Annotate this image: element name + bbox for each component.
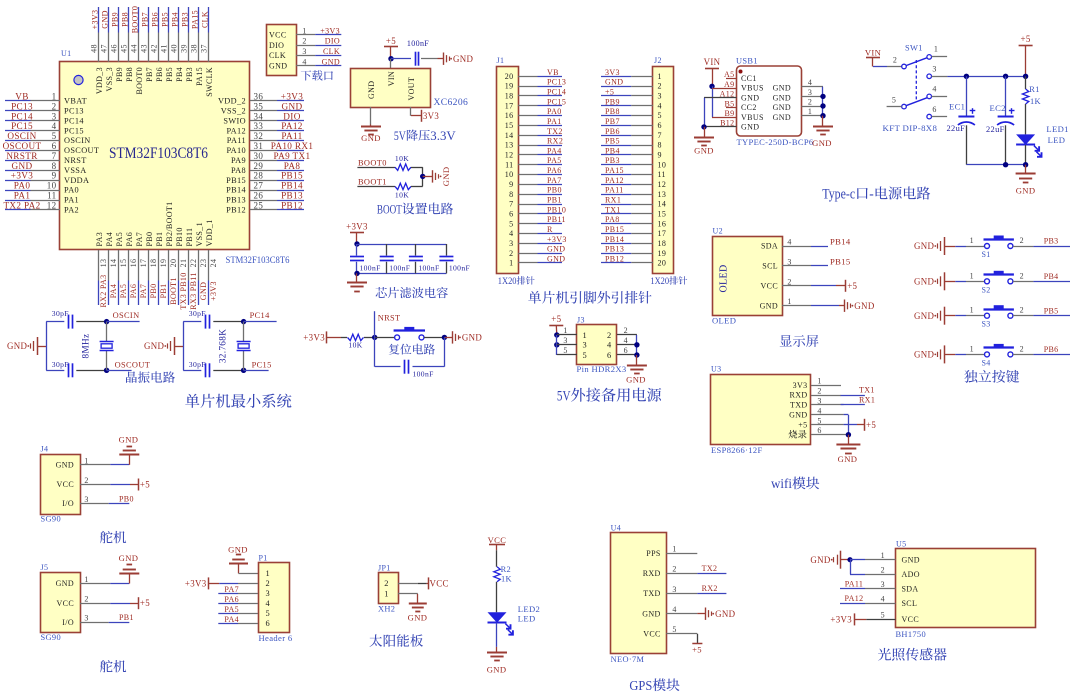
capacitor 100nF filter 2 [380,244,411,273]
U1 bottom pin 24 VDD_1 / net +3V3 [205,219,218,305]
svg-text:PB1: PB1 [547,196,562,205]
svg-text:+3V3: +3V3 [346,221,368,231]
svg-text:19: 19 [505,82,514,91]
junction [388,56,393,61]
svg-text:8MHz: 8MHz [81,334,91,359]
svg-text:3V3: 3V3 [605,68,620,77]
J5 pin1 GND wire [80,574,130,584]
svg-text:40: 40 [170,44,179,53]
USB1 pin B9 [712,109,737,118]
svg-text:5: 5 [881,611,885,620]
svg-text:1: 1 [509,259,513,268]
U1 bottom pin 22 PB11 / net RX3 PB11 [185,228,198,310]
svg-text:RX2: RX2 [547,137,563,146]
svg-text:NRST: NRST [64,156,87,165]
svg-text:GND: GND [773,93,791,102]
J4 pin1 GND wire [80,455,130,465]
svg-text:PB7: PB7 [141,12,150,27]
svg-text:4: 4 [266,599,271,608]
svg-text:+5: +5 [140,598,150,608]
wire S2 to PB4 [1013,271,1070,281]
junction BOOT node [420,174,425,179]
P1 pin4 wire / net PA6 [218,595,258,604]
svg-text:18: 18 [658,239,667,248]
svg-text:PB10: PB10 [547,205,566,214]
U5 pin 1 number [881,551,885,560]
junction bottom rail [354,271,359,276]
U4 pin 4 [666,605,697,614]
capacitor 100nF reset [405,360,434,379]
J2 pin 16 / net PA8 [601,215,653,224]
wire button to gnd node [424,335,452,340]
svg-text:TX2: TX2 [702,564,718,573]
svg-text:13: 13 [99,259,108,268]
svg-text:PB8: PB8 [121,12,130,27]
svg-text:PB14: PB14 [830,237,851,247]
svg-text:PA8: PA8 [231,166,246,175]
svg-text:PB4: PB4 [1044,272,1059,281]
svg-text:PA12: PA12 [281,121,303,131]
svg-text:DIO: DIO [325,37,340,46]
ground earth LED2 [487,653,507,675]
svg-text:5: 5 [817,416,821,425]
wire top rail [357,244,446,246]
U1 right pin 27 PB14 / net PB14 [226,181,304,195]
power +5 J3 [549,314,563,335]
wire net PC15 [244,360,272,370]
svg-text:2: 2 [881,566,885,575]
P1 pin3 wire / net PA7 [218,585,258,594]
svg-text:1: 1 [970,236,974,245]
svg-text:PC14: PC14 [11,111,33,121]
svg-text:44: 44 [130,44,139,53]
svg-text:GND: GND [914,311,935,321]
svg-text:PA7: PA7 [547,176,562,185]
connector download port (VCC DIO CLK GND) [267,25,297,76]
svg-text:6: 6 [509,209,513,218]
J2 pin 12 / net PA12 [601,176,653,185]
U1 right pin 30 PA9 / net PA9 TX1 [231,151,311,165]
svg-text:18: 18 [505,92,514,101]
J1 pin 11 / net PA5 [518,156,562,165]
svg-text:17: 17 [658,229,667,238]
svg-text:PA0: PA0 [547,107,562,116]
svg-text:47: 47 [100,44,109,53]
svg-text:38: 38 [190,44,199,53]
svg-text:PA9 TX1: PA9 TX1 [274,151,311,161]
wire ADO pin2 [850,560,896,575]
svg-text:LED2: LED2 [518,604,540,614]
svg-text:GND: GND [547,245,565,254]
J1 pin 17 / net PC15 [518,97,566,106]
IC U4 NEO-7M GPS [611,523,667,664]
svg-text:R: R [547,225,553,234]
svg-text:PA5: PA5 [119,284,128,299]
svg-text:PB1: PB1 [155,232,164,247]
svg-text:PC13: PC13 [11,101,33,111]
wire LED2 to gnd [496,623,498,652]
svg-text:4: 4 [881,595,885,604]
caption crystal circuit [126,371,175,383]
svg-text:PA8: PA8 [284,161,301,171]
U1 bottom pin 16 PA6 / net PA6 [125,232,138,305]
svg-text:GND: GND [773,113,791,122]
svg-text:2: 2 [607,331,612,340]
LED LED1 [1016,124,1069,165]
svg-text:+3V3: +3V3 [209,281,218,301]
svg-text:A5: A5 [724,70,734,79]
svg-text:+3V3: +3V3 [830,614,852,624]
svg-text:GND: GND [119,553,139,563]
svg-text:GND: GND [715,609,736,619]
svg-text:39: 39 [180,44,189,53]
svg-text:PB9: PB9 [605,97,620,106]
capacitor 100nF filter 3 [409,244,440,273]
ground GND OLED [845,300,875,312]
U3 pin 3 [811,397,844,406]
wire gnd to P1 pin1 [239,564,259,574]
svg-text:10: 10 [658,160,667,169]
svg-text:PB15: PB15 [226,176,246,185]
wire crystal frame [46,322,64,371]
J3 pin5 wire [557,346,577,355]
wire GND row [811,305,845,307]
U1 left pin 9 VDDA / net +3V3 [5,171,89,185]
svg-text:100nF: 100nF [360,264,381,273]
svg-text:OSCIN: OSCIN [64,136,91,145]
svg-text:1: 1 [266,569,271,578]
svg-text:5: 5 [509,219,513,228]
svg-text:R2: R2 [501,565,511,574]
svg-text:J5: J5 [41,563,49,572]
wire +5 rail to cap [391,58,411,60]
svg-text:GND: GND [547,254,565,263]
J1 pin 18 / net PC14 [518,87,566,96]
svg-text:3: 3 [266,589,271,598]
JP1 pin1 wire to gnd [398,594,418,603]
svg-text:BOOT: BOOT [377,202,402,216]
svg-text:PB9: PB9 [115,67,124,82]
svg-text:2: 2 [384,579,389,588]
svg-text:U1: U1 [61,49,71,58]
svg-text:3: 3 [84,614,88,623]
wire +5 U3 [844,419,877,431]
svg-text:31: 31 [254,141,264,151]
svg-text:GND: GND [902,555,920,564]
svg-text:PB13: PB13 [605,245,624,254]
wire R2 to node [411,186,423,188]
svg-text:4: 4 [509,229,513,238]
svg-text:PB8: PB8 [605,107,620,116]
svg-text:GND: GND [144,341,165,351]
svg-text:30pF: 30pF [189,309,206,318]
svg-text:PA5: PA5 [115,232,124,247]
svg-text:S3: S3 [982,320,991,329]
svg-text:100nF: 100nF [418,264,439,273]
svg-text:+3V3: +3V3 [320,26,340,35]
svg-text:RXD: RXD [790,391,808,400]
svg-text:PB14: PB14 [226,186,246,195]
svg-text:1: 1 [970,306,974,315]
J1 pin 20 / net VB [518,68,562,77]
svg-text:2: 2 [1020,271,1024,280]
svg-text:PA11: PA11 [281,131,302,141]
resistor R2 1K [494,565,512,583]
J2 pin 4 / net PB9 [601,97,653,106]
svg-text:TX2: TX2 [547,127,563,136]
svg-text:EC1: EC1 [949,102,965,112]
svg-text:1: 1 [808,107,812,116]
IC U2 OLED [712,227,783,326]
svg-text:PB14: PB14 [605,235,624,244]
svg-text:4: 4 [672,605,676,614]
svg-text:36: 36 [254,92,264,102]
svg-text:SWCLK: SWCLK [205,67,214,97]
svg-text:VCC: VCC [269,30,287,39]
svg-text:4: 4 [808,78,812,87]
svg-text:STM32F103C8T6: STM32F103C8T6 [109,143,208,162]
U1 right pin 32 PA11 / net PA11 [227,131,304,145]
svg-text:VCC: VCC [488,535,507,545]
power VIN symbol SW [865,47,882,66]
svg-text:OLED: OLED [712,315,736,325]
svg-text:PC15: PC15 [64,126,84,135]
ground GND P1 [228,544,248,563]
LED LED2 [488,604,541,635]
J4 pin3 I/O wire / net PB0 [80,494,134,504]
svg-text:PB12: PB12 [226,206,246,215]
wire net OSCIN [107,311,140,322]
svg-text:1: 1 [84,456,88,465]
svg-text:15: 15 [505,121,514,130]
download port pin 2 / net DIO [296,37,341,46]
caption reset circuit [389,344,435,355]
U1 left pin 3 PC14 / net PC14 [5,111,84,125]
svg-text:GND: GND [361,133,381,143]
power +5 symbol [384,36,398,59]
wire node to button [375,337,395,339]
U1 bottom pin 17 PA7 / net PA7 [135,232,148,305]
svg-text:wifi: wifi [771,476,792,491]
svg-text:CLK: CLK [323,47,340,56]
svg-text:CC1: CC1 [741,74,757,83]
resistor 10K reset [348,334,364,349]
JP1 pin2 wire to VCC [398,577,449,589]
svg-text:14: 14 [505,131,514,140]
power +5 symbol right [1019,34,1033,76]
svg-text:5: 5 [52,131,57,141]
svg-text:J1: J1 [497,56,505,65]
U5 pin 5 number [881,611,885,620]
svg-text:VB: VB [15,92,28,102]
svg-text:PA6: PA6 [224,595,239,604]
J3 pin6 wire [617,346,637,355]
svg-text:20: 20 [505,72,514,81]
svg-text:2: 2 [1020,344,1024,353]
net label BOOT0 wire [357,159,395,168]
capacitor EC2 22uF [986,76,1015,164]
svg-text:18: 18 [149,259,158,268]
U1 bottom pin 13 PA3 / net RX2 PA3 [95,232,108,308]
svg-text:+5: +5 [1021,34,1031,44]
svg-text:TX2 PA2: TX2 PA2 [3,200,40,210]
U2 pin 3 / PB15 [782,256,851,266]
svg-text:1: 1 [658,72,662,81]
wire VCC U4 to +5 [692,634,702,655]
svg-text:CLK: CLK [269,51,286,60]
svg-text:TXD: TXD [790,401,808,410]
wire A12-B12 gnd [701,98,706,137]
caption BOOT setting circuit [377,202,453,216]
ground GND button S2 [914,272,944,290]
U1 top pin 46 PB9 / net PB9 [110,7,124,82]
svg-text:TYPEC-250D-BCP6: TYPEC-250D-BCP6 [737,137,814,147]
svg-text:I/O: I/O [62,618,74,627]
U4 pin 5 [666,625,697,634]
resistor R1 1K [1022,76,1041,134]
wire SW pin1 [932,56,948,58]
power VCC LED2 [488,535,507,551]
svg-text:BOOT1: BOOT1 [169,277,178,305]
svg-text:4: 4 [658,101,662,110]
svg-text:20: 20 [169,259,178,268]
ground earth USB right [812,127,833,149]
J2 pin 19 / net PB13 [601,245,653,254]
svg-text:GND: GND [119,434,139,444]
svg-text:PA4: PA4 [547,146,562,155]
svg-text:2: 2 [266,579,271,588]
caption GPS module [629,678,679,693]
svg-text:VSS_2: VSS_2 [221,107,246,116]
wire GND to S3 [944,306,984,316]
power 3V3 bar [422,110,440,122]
caption Type-C power circuit [822,186,930,202]
J2 pin 20 / net PB12 [601,254,653,263]
J3 pin1 wire [557,326,577,335]
U1 right pin 36 VDD_2 / net +3V3 [218,92,304,106]
svg-text:3: 3 [787,257,791,266]
svg-text:+5: +5 [605,87,614,96]
svg-text:4: 4 [624,336,628,345]
U1 right pin 26 PB13 / net PB13 [226,191,304,205]
svg-text:GND: GND [838,454,858,464]
svg-text:GND: GND [760,301,778,310]
svg-text:23: 23 [199,259,208,268]
wire crystal frame [183,322,201,371]
svg-text:GND: GND [854,301,875,311]
ground earth U3 [836,445,860,465]
svg-text:32: 32 [254,131,264,141]
U1 bottom pin 19 PB1 / net PB1 [155,232,168,305]
svg-text:B12: B12 [720,119,734,128]
U1 top pin 39 PB3 / net PB3 [180,7,194,82]
J2 pin 6 / net PB7 [601,117,653,126]
wire net OSCOUT [107,360,151,370]
svg-text:CLK: CLK [201,11,210,28]
svg-text:DIO: DIO [269,41,284,50]
resistor 10K upper [395,154,411,171]
svg-text:PB5: PB5 [161,12,170,27]
svg-text:PB0: PB0 [149,284,158,299]
svg-text:32.768K: 32.768K [218,329,228,363]
svg-text:+3V3: +3V3 [91,10,100,30]
caption J1 1x20 [498,276,535,286]
U1 top pin 37 SWCLK / net CLK [200,7,214,97]
svg-text:PA1: PA1 [14,191,31,201]
download port pin 4 / net GND [296,57,341,66]
svg-text:5: 5 [672,625,676,634]
svg-text:100nF: 100nF [413,370,434,379]
svg-text:RXD: RXD [643,569,661,578]
power +3V3 P1 pin2 [185,577,258,589]
svg-text:13: 13 [505,141,514,150]
svg-text:PB1: PB1 [159,284,168,299]
svg-text:PB3: PB3 [605,156,620,165]
U4 pin 2 [666,565,697,574]
svg-text:U3: U3 [711,365,721,374]
svg-text:PB15: PB15 [605,225,624,234]
svg-text:1: 1 [934,45,938,54]
caption MCU minimum system [185,394,291,408]
J1 pin 7 / net PB1 [518,196,562,205]
svg-text:GND: GND [322,57,340,66]
J5 pin3 I/O wire / net PB1 [80,613,134,623]
svg-text:GND: GND [741,123,759,132]
svg-text:PB12: PB12 [605,254,624,263]
svg-text:USB1: USB1 [736,57,758,66]
wire S4 to PB6 [1013,344,1070,354]
svg-text:PB6: PB6 [151,12,160,27]
svg-text:OSCIN: OSCIN [113,311,140,320]
svg-text:2: 2 [52,101,57,111]
svg-text:100nF: 100nF [407,39,429,48]
U1 top pin 42 PB6 / net PB6 [150,7,164,82]
wire SW pin4 [932,96,948,98]
svg-text:2: 2 [1020,306,1024,315]
ground GND U5 [810,551,840,569]
wire to earth [356,273,358,282]
J3 pin4 wire [617,336,637,345]
svg-text:PB4: PB4 [605,146,620,155]
svg-text:8: 8 [658,141,662,150]
J2 pin 15 / net TX1 [601,205,653,214]
svg-text:NEO·7M: NEO·7M [611,655,645,664]
svg-text:PC14: PC14 [64,116,84,125]
svg-text:ADO: ADO [902,570,920,579]
ground GND U4 [706,608,736,620]
svg-text:RX2 PA3: RX2 PA3 [99,274,108,307]
svg-text:37: 37 [200,44,209,53]
wire SW pin5 [887,106,902,108]
svg-text:R1: R1 [1029,85,1039,94]
svg-text:ESP8266·12F: ESP8266·12F [711,445,763,455]
svg-text:12: 12 [47,200,57,210]
caption independent keys [964,370,1019,383]
svg-text:PA12: PA12 [605,176,624,185]
svg-text:3V3: 3V3 [423,111,440,121]
svg-text:1: 1 [84,575,88,584]
wire to resistor [327,337,347,339]
svg-text:3: 3 [672,585,676,594]
wire R to node NRST [364,335,377,340]
svg-text:2: 2 [624,326,628,335]
svg-text:4: 4 [52,121,57,131]
svg-text:PB15: PB15 [830,256,851,266]
svg-text:P1: P1 [259,554,268,563]
svg-text:VCC: VCC [643,629,661,638]
svg-text:STM32F103C8T6: STM32F103C8T6 [226,256,290,266]
svg-text:20: 20 [658,259,667,268]
